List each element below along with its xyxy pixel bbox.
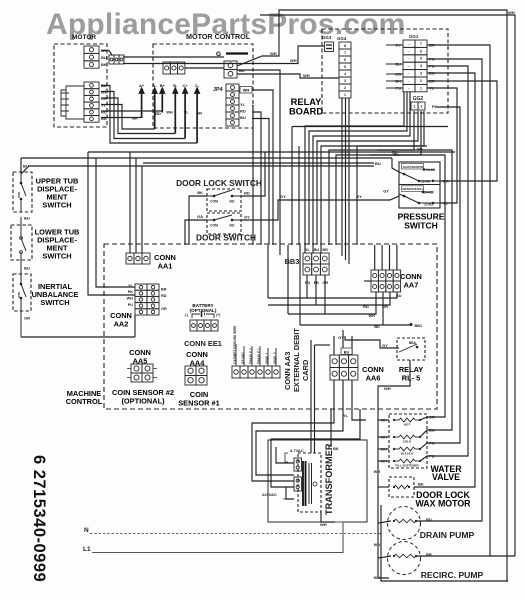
svg-text:BR: BR: [161, 288, 167, 292]
svg-text:-: -: [408, 42, 410, 46]
junction: [415, 555, 417, 557]
svg-text:RD: RD: [363, 304, 369, 309]
wire motor OR wrap: [101, 98, 175, 134]
label RELAY RL-5: [399, 365, 423, 383]
svg-text:BOARD: BOARD: [289, 107, 323, 117]
junction: [403, 195, 406, 198]
GG1 left stub wires: [386, 45, 403, 88]
wire N: [90, 533, 381, 535]
svg-text:(OPTIONAL): (OPTIONAL): [121, 397, 165, 406]
svg-text:PU: PU: [128, 303, 134, 307]
svg-text:4: 4: [420, 64, 422, 68]
svg-text:PK: PK: [432, 104, 438, 109]
wire gg1 w3: [313, 92, 410, 253]
wire gg2 w4: [317, 111, 418, 245]
svg-text:BR: BR: [322, 248, 328, 252]
upper tub switch contacts: [21, 172, 26, 212]
svg-text:AA1: AA1: [158, 262, 173, 271]
wire AA1 drop3: [141, 166, 143, 253]
valve coil lead2 HOT: [415, 419, 420, 421]
wire v268a: [267, 245, 269, 298]
svg-text:GG1: GG1: [409, 34, 419, 39]
wire RD JP4 down: [252, 112, 261, 245]
svg-text:BK: BK: [333, 446, 339, 451]
motor dashed box: [54, 44, 107, 127]
valve coil lead HOT: [394, 419, 399, 421]
svg-text:BBA: BBA: [409, 341, 417, 345]
svg-text:AGITATE/SPIN: AGITATE/SPIN: [403, 165, 424, 169]
svg-text:225VAC: 225VAC: [262, 492, 277, 497]
junction: [393, 486, 395, 488]
svg-text:NO: NO: [229, 200, 234, 204]
wire h305: [268, 292, 390, 305]
svg-text:COLD: COLD: [403, 439, 412, 443]
svg-text:(+): (+): [216, 313, 220, 317]
svg-text:WH: WH: [374, 470, 381, 474]
water valve dashed box: [389, 414, 427, 468]
junction BB1: [410, 323, 413, 326]
svg-text:BU: BU: [240, 115, 246, 120]
wire gg1 w1: [305, 92, 404, 253]
wire transformer enclosure: [268, 440, 367, 522]
junction: [20, 283, 23, 286]
svg-text:SWITCH: SWITCH: [404, 220, 438, 230]
connector JP4: [226, 84, 239, 126]
svg-text:BU: BU: [24, 216, 30, 221]
svg-text:FILL SOFTENER: FILL SOFTENER: [395, 463, 419, 467]
svg-text:GG2: GG2: [413, 96, 424, 102]
svg-text:WAX MOTOR: WAX MOTOR: [415, 498, 471, 508]
wire AA1 drop2: [135, 158, 137, 253]
svg-text:BLEACH: BLEACH: [401, 451, 414, 455]
svg-text:CONN AA3: CONN AA3: [283, 352, 292, 390]
wire mid b: [298, 146, 300, 245]
svg-text:7: 7: [344, 51, 346, 55]
svg-text:1: 1: [420, 86, 422, 90]
wire neutral chain: [378, 420, 389, 578]
svg-text:CARD: CARD: [301, 359, 310, 381]
svg-text:BK: BK: [101, 116, 107, 121]
wire gg4 b: [345, 98, 347, 260]
svg-text:14-4Ω: 14-4Ω: [426, 168, 435, 172]
svg-text:(-): (-): [185, 313, 188, 317]
label CONN AA4: [186, 350, 208, 368]
wire AA7 feed: [389, 245, 391, 270]
wire stub: [364, 280, 371, 282]
svg-text:N: N: [84, 527, 89, 534]
svg-text:1: 1: [414, 104, 416, 108]
valve coil lead2 COLD: [415, 436, 420, 438]
wire BK door down: [189, 196, 207, 245]
drain pump circle: [388, 507, 421, 540]
motor connector P1 (3-pin): [84, 46, 99, 68]
svg-text:RELAY: RELAY: [291, 97, 322, 107]
connector GG1: [403, 40, 427, 92]
wax motor box: [389, 477, 414, 497]
wire motor BK: [101, 117, 142, 119]
pressure switch bottom blade: [399, 194, 419, 203]
svg-text:ENABLE 2: ENABLE 2: [249, 348, 253, 364]
svg-text:SWITCH: SWITCH: [40, 298, 69, 307]
door switch contacts: [207, 215, 241, 220]
junction: [432, 180, 435, 183]
junction: [393, 448, 395, 450]
svg-text:B+: B+: [160, 83, 166, 88]
label CONN AA3 EXTERNAL DEBIT CARD: [283, 328, 310, 392]
junction: [393, 520, 395, 522]
wire wv stub4: [378, 460, 389, 462]
svg-text:AVAIL 2: AVAIL 2: [273, 352, 277, 364]
svg-text:WH: WH: [270, 51, 277, 56]
svg-text:OR: OR: [24, 316, 30, 321]
motor winding: [61, 86, 84, 119]
svg-text:BU: BU: [344, 350, 350, 354]
svg-text:AA6: AA6: [366, 374, 381, 383]
wire debit v1: [310, 340, 312, 453]
225VAC bracket: [283, 487, 286, 499]
junction: [231, 195, 234, 198]
wire bb3 b: [315, 275, 317, 305]
wire gg1 w2: [309, 92, 407, 245]
svg-text:CABINET GROUND WIRE: CABINET GROUND WIRE: [233, 326, 237, 364]
svg-text:-: -: [408, 72, 410, 76]
svg-text:MOTOR: MOTOR: [72, 34, 96, 41]
wire h314: [288, 292, 376, 314]
wire v300a: [299, 245, 301, 325]
svg-text:RL- 5: RL- 5: [402, 374, 420, 383]
wire pump box: [381, 505, 507, 581]
label CONN AA2: [110, 311, 132, 329]
svg-text:24-4Ω: 24-4Ω: [424, 191, 433, 195]
wire WH xfmr down: [321, 512, 335, 522]
wire motor BU wrap: [101, 86, 197, 144]
svg-text:BU: BU: [314, 248, 320, 252]
svg-text:CONTROL: CONTROL: [66, 397, 103, 406]
junction: [213, 195, 216, 198]
wire xfmr feed bottom: [286, 487, 294, 499]
svg-text:DRAIN PUMP: DRAIN PUMP: [420, 530, 475, 540]
transformer primary connector bottom: [294, 477, 302, 491]
relay RL-5 contact: [399, 344, 417, 352]
motor control terminal strip: [163, 62, 185, 74]
battery symbol: [192, 314, 214, 318]
junction: [419, 448, 421, 450]
junction: [393, 419, 395, 421]
svg-text:SWITCH: SWITCH: [42, 201, 71, 210]
svg-text:RD: RD: [240, 109, 246, 114]
wire xfmr feed top: [276, 447, 294, 463]
svg-text:RED: RED: [17, 292, 21, 298]
svg-text:BB1: BB1: [415, 324, 423, 328]
svg-text:-: -: [408, 86, 410, 90]
label LOWER TUB DISPLACEMENT SWITCH: [35, 228, 80, 261]
svg-text:BK: BK: [197, 190, 203, 195]
svg-text:MOTOR CONTROL: MOTOR CONTROL: [186, 32, 251, 41]
wire long top1: [21, 157, 392, 159]
wire gg4 c: [348, 98, 350, 264]
svg-text:WH: WH: [166, 110, 173, 115]
pressure switch box: [399, 162, 440, 208]
svg-text:3: 3: [420, 72, 422, 76]
wire to AA2 b: [96, 158, 135, 287]
wire YL AA6: [352, 380, 366, 420]
wire h325 up: [382, 292, 384, 325]
label UPPER TUB DISPLACEMENT SWITCH: [36, 177, 79, 210]
wire BU drop to PS: [392, 158, 399, 172]
wire v288a: [287, 245, 289, 314]
inertial switch box: [13, 274, 31, 311]
3.7VAC bracket: [285, 453, 288, 462]
wire wv stub1: [378, 419, 389, 421]
svg-text:-: -: [408, 49, 410, 53]
svg-text:7: 7: [420, 42, 422, 46]
svg-text:OR: OR: [196, 111, 202, 116]
wire h298: [268, 292, 397, 298]
label COIN SENSOR 2: [112, 388, 174, 406]
svg-text:-: -: [408, 64, 410, 68]
label CONN AA7: [400, 272, 422, 290]
wire mid c: [356, 146, 358, 245]
transformer primary connector top: [294, 458, 302, 471]
junction: [423, 168, 426, 171]
wire h126: [292, 126, 448, 128]
wire BK down: [237, 70, 280, 255]
svg-text:2: 2: [344, 86, 346, 90]
pressure switch bottom contact labels: [402, 186, 424, 192]
svg-text:SENSOR #1: SENSOR #1: [178, 399, 220, 408]
svg-text:SWITCH: SWITCH: [42, 252, 71, 261]
svg-text:CONN EE1: CONN EE1: [184, 339, 222, 348]
wire mid c2: [357, 145, 427, 147]
svg-text:ENABLE 1: ENABLE 1: [257, 348, 261, 364]
wire WH top rail: [237, 10, 508, 581]
label CONN AA1: [154, 253, 176, 271]
wire L1: [92, 522, 343, 553]
svg-text:1: 1: [344, 93, 346, 97]
pressure switch top blade: [399, 172, 419, 181]
wire GY door to ps: [241, 196, 399, 220]
wire h325: [300, 324, 411, 326]
label CONN AA5: [129, 348, 151, 366]
svg-text:A-: A-: [153, 83, 158, 88]
svg-text:2: 2: [421, 104, 423, 108]
svg-text:DOOR SWITCH: DOOR SWITCH: [196, 233, 256, 243]
svg-text:PU: PU: [417, 147, 423, 152]
upper tub switch box: [13, 172, 32, 212]
relay board dashed box: [322, 29, 448, 113]
junction: [393, 460, 395, 462]
wire AA7 feed: [396, 245, 398, 270]
svg-text:BU: BU: [24, 266, 30, 271]
boxed WH label: [240, 87, 252, 94]
lower tub switch box: [11, 225, 32, 260]
transformer dashed box: [298, 453, 321, 512]
wire AA6 b: [342, 330, 344, 355]
wire debit v2 top: [315, 344, 331, 346]
wire AA6 a: [333, 336, 335, 355]
svg-text:RESERVE/FILL: RESERVE/FILL: [403, 187, 425, 191]
drain pump winding: [394, 519, 416, 523]
svg-text:B-: B-: [173, 83, 178, 88]
junction: [422, 191, 425, 194]
svg-text:TRANSFORMER: TRANSFORMER: [324, 443, 334, 515]
valve coil COLD: [399, 435, 415, 439]
pressure switch divider: [399, 184, 440, 186]
connector GG3: [325, 42, 334, 52]
wire drain stub: [378, 521, 391, 523]
svg-text:5: 5: [344, 65, 346, 69]
wire WH to input: [123, 56, 224, 58]
recirc pump winding: [394, 554, 416, 558]
junction: [20, 198, 23, 201]
wire BK wax: [414, 73, 475, 487]
wire BK xfmr up: [330, 409, 332, 447]
inertial switch contacts: [21, 266, 26, 337]
svg-text:6 2715340-0999: 6 2715340-0999: [30, 455, 48, 582]
wire mid a: [291, 127, 293, 246]
svg-text:8: 8: [344, 44, 346, 48]
wire PU valve: [420, 66, 468, 461]
wire AA7 feed: [374, 245, 376, 270]
svg-text:GG3: GG3: [322, 35, 332, 40]
svg-text:OR: OR: [161, 307, 167, 311]
wire WH rl5 chain: [378, 360, 410, 420]
connector CONN AA5: [131, 364, 153, 382]
svg-text:AA2: AA2: [114, 320, 129, 329]
connector CONN AA1: [126, 253, 150, 264]
svg-text:RED: RED: [17, 192, 21, 198]
svg-text:WH: WH: [303, 73, 310, 78]
wire gg2 b: [336, 111, 421, 245]
svg-text:AA7: AA7: [404, 281, 419, 290]
svg-text:C-: C-: [195, 83, 200, 88]
recirc pump circle: [388, 542, 421, 575]
wire AA6 to xfmr hook1: [252, 380, 334, 481]
motor drive lines A+/A-/B+/B-/C+/C-: [139, 83, 200, 143]
svg-text:NO: NO: [229, 224, 234, 228]
svg-text:BU: BU: [101, 55, 107, 60]
svg-text:2: 2: [420, 79, 422, 83]
wax motor element: [394, 485, 409, 489]
wire gg4 a: [341, 98, 343, 256]
wire GY rl5: [345, 336, 399, 348]
svg-text:(OPTIONAL): (OPTIONAL): [190, 308, 217, 313]
relay RL-5 box: [397, 338, 425, 360]
wire h163: [143, 162, 374, 164]
label RELAY BOARD: [289, 97, 323, 117]
svg-text:YL: YL: [184, 110, 190, 115]
junction: [419, 436, 421, 438]
wire OR valve: [370, 155, 445, 420]
wire YL ps: [427, 88, 457, 203]
label INERTIAL UNBALANCE SWITCH: [32, 282, 79, 307]
connector CONN AA3: [232, 366, 280, 378]
svg-text:RD: RD: [101, 109, 107, 114]
svg-text:BK: BK: [101, 62, 107, 67]
junction: [213, 219, 216, 222]
wire xfmr hook3: [271, 409, 360, 487]
label PRESSURE SWITCH: [398, 212, 445, 231]
svg-text:5: 5: [420, 57, 422, 61]
wire wv stub3: [378, 448, 389, 450]
motor control dashed box: [153, 44, 253, 128]
svg-text:YL: YL: [343, 413, 349, 418]
valve coil lead2 BLEACH: [415, 448, 420, 450]
svg-text:PU: PU: [305, 281, 311, 285]
wire BU diag: [21, 166, 29, 174]
junction: [415, 520, 417, 522]
junction: [419, 419, 421, 421]
svg-text:BK: BK: [374, 324, 380, 329]
transformer windings: [303, 461, 306, 506]
svg-text:-: -: [408, 79, 410, 83]
svg-text:RD: RD: [161, 294, 167, 298]
svg-text:AVAIL 1: AVAIL 1: [265, 352, 269, 364]
junction: [393, 555, 395, 557]
wire gg2 w5: [321, 111, 424, 253]
connector GG2: [411, 102, 425, 110]
svg-text:RD: RD: [155, 111, 161, 116]
wire AA6 to xfmr hook2: [256, 380, 343, 475]
door lock switch box: [207, 189, 241, 211]
door switch box: [207, 213, 241, 234]
wire rail BU: [29, 165, 374, 167]
wire BU to GG3: [123, 46, 324, 64]
machine control dashed box: [104, 244, 437, 409]
svg-text:BK: BK: [418, 482, 424, 487]
svg-text:6: 6: [344, 58, 346, 62]
junction: [403, 173, 406, 176]
svg-text:GY: GY: [244, 215, 250, 220]
svg-text:RD: RD: [244, 191, 250, 196]
svg-text:WH: WH: [243, 89, 250, 93]
motor control input connector: [224, 61, 237, 78]
label BU boxed: [341, 348, 352, 355]
wire gg2 a: [329, 111, 414, 245]
wire WH to GG4: [237, 74, 339, 78]
svg-text:COM: COM: [210, 224, 218, 228]
junction: [20, 182, 23, 185]
svg-text:6: 6: [420, 49, 422, 53]
wire long top0: [88, 151, 455, 153]
connector CONN AA4: [185, 366, 207, 385]
wires above CONN AA3: [236, 344, 276, 366]
wire motor RD: [101, 111, 162, 113]
svg-text:WH: WH: [384, 386, 391, 391]
label COIN SENSOR 1: [178, 390, 220, 408]
wire WH stub: [101, 51, 112, 56]
connector CONN AA6: [330, 355, 358, 380]
svg-text:YL: YL: [305, 248, 311, 252]
label DOOR LOCK WAX MOTOR: [415, 490, 471, 508]
svg-text:4: 4: [344, 72, 346, 76]
wire wv stub2: [378, 436, 389, 438]
wire RD door up: [241, 152, 265, 196]
wire AA6 c: [351, 336, 353, 355]
label MACHINE CONTROL: [66, 389, 103, 406]
label WATER VALVE: [430, 464, 462, 482]
svg-text:WH: WH: [127, 297, 134, 301]
connector BB3: [303, 253, 329, 275]
wire BU JP4 down: [252, 119, 269, 246]
svg-text:HOT: HOT: [404, 422, 411, 426]
svg-text:VALVE: VALVE: [432, 472, 460, 482]
CONN AA3 rotated pin labels: [233, 326, 277, 364]
pressure switch top contact labels: [402, 164, 424, 170]
valve coil lead2 FILL SOFTENER: [415, 460, 420, 462]
junction: [418, 180, 421, 183]
wire switch top: [20, 158, 22, 172]
